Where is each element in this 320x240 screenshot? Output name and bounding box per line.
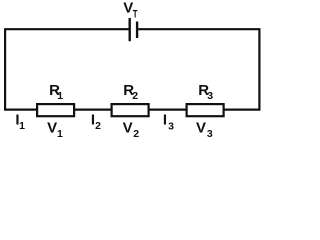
svg-text:3: 3: [168, 120, 174, 132]
svg-text:V: V: [47, 120, 57, 137]
wire: left loop from battery negative terminal around top-left, left side, to resistor R1: [5, 29, 129, 109]
wire: node between R1 and R2: [75, 108, 113, 110]
svg-text:V: V: [196, 120, 206, 137]
svg-text:3: 3: [207, 128, 213, 140]
resistor R3: [187, 104, 224, 116]
svg-text:1: 1: [57, 128, 63, 140]
svg-text:2: 2: [132, 90, 138, 102]
wire: node between R2 and R3: [149, 108, 187, 110]
svg-text:3: 3: [207, 90, 213, 102]
resistor R2: [112, 104, 149, 116]
svg-text:T: T: [133, 9, 138, 21]
battery VT short plate: [136, 22, 138, 39]
svg-text:V: V: [123, 120, 133, 137]
svg-text:I: I: [163, 112, 167, 129]
svg-text:2: 2: [95, 120, 101, 132]
svg-text:1: 1: [57, 90, 63, 102]
svg-text:2: 2: [133, 128, 139, 140]
svg-text:1: 1: [19, 120, 25, 132]
battery VT long plate: [128, 18, 130, 41]
wire: right loop from battery positive terminal around top-right, right side, to resistor R3: [137, 29, 260, 109]
resistor R1: [37, 104, 74, 116]
